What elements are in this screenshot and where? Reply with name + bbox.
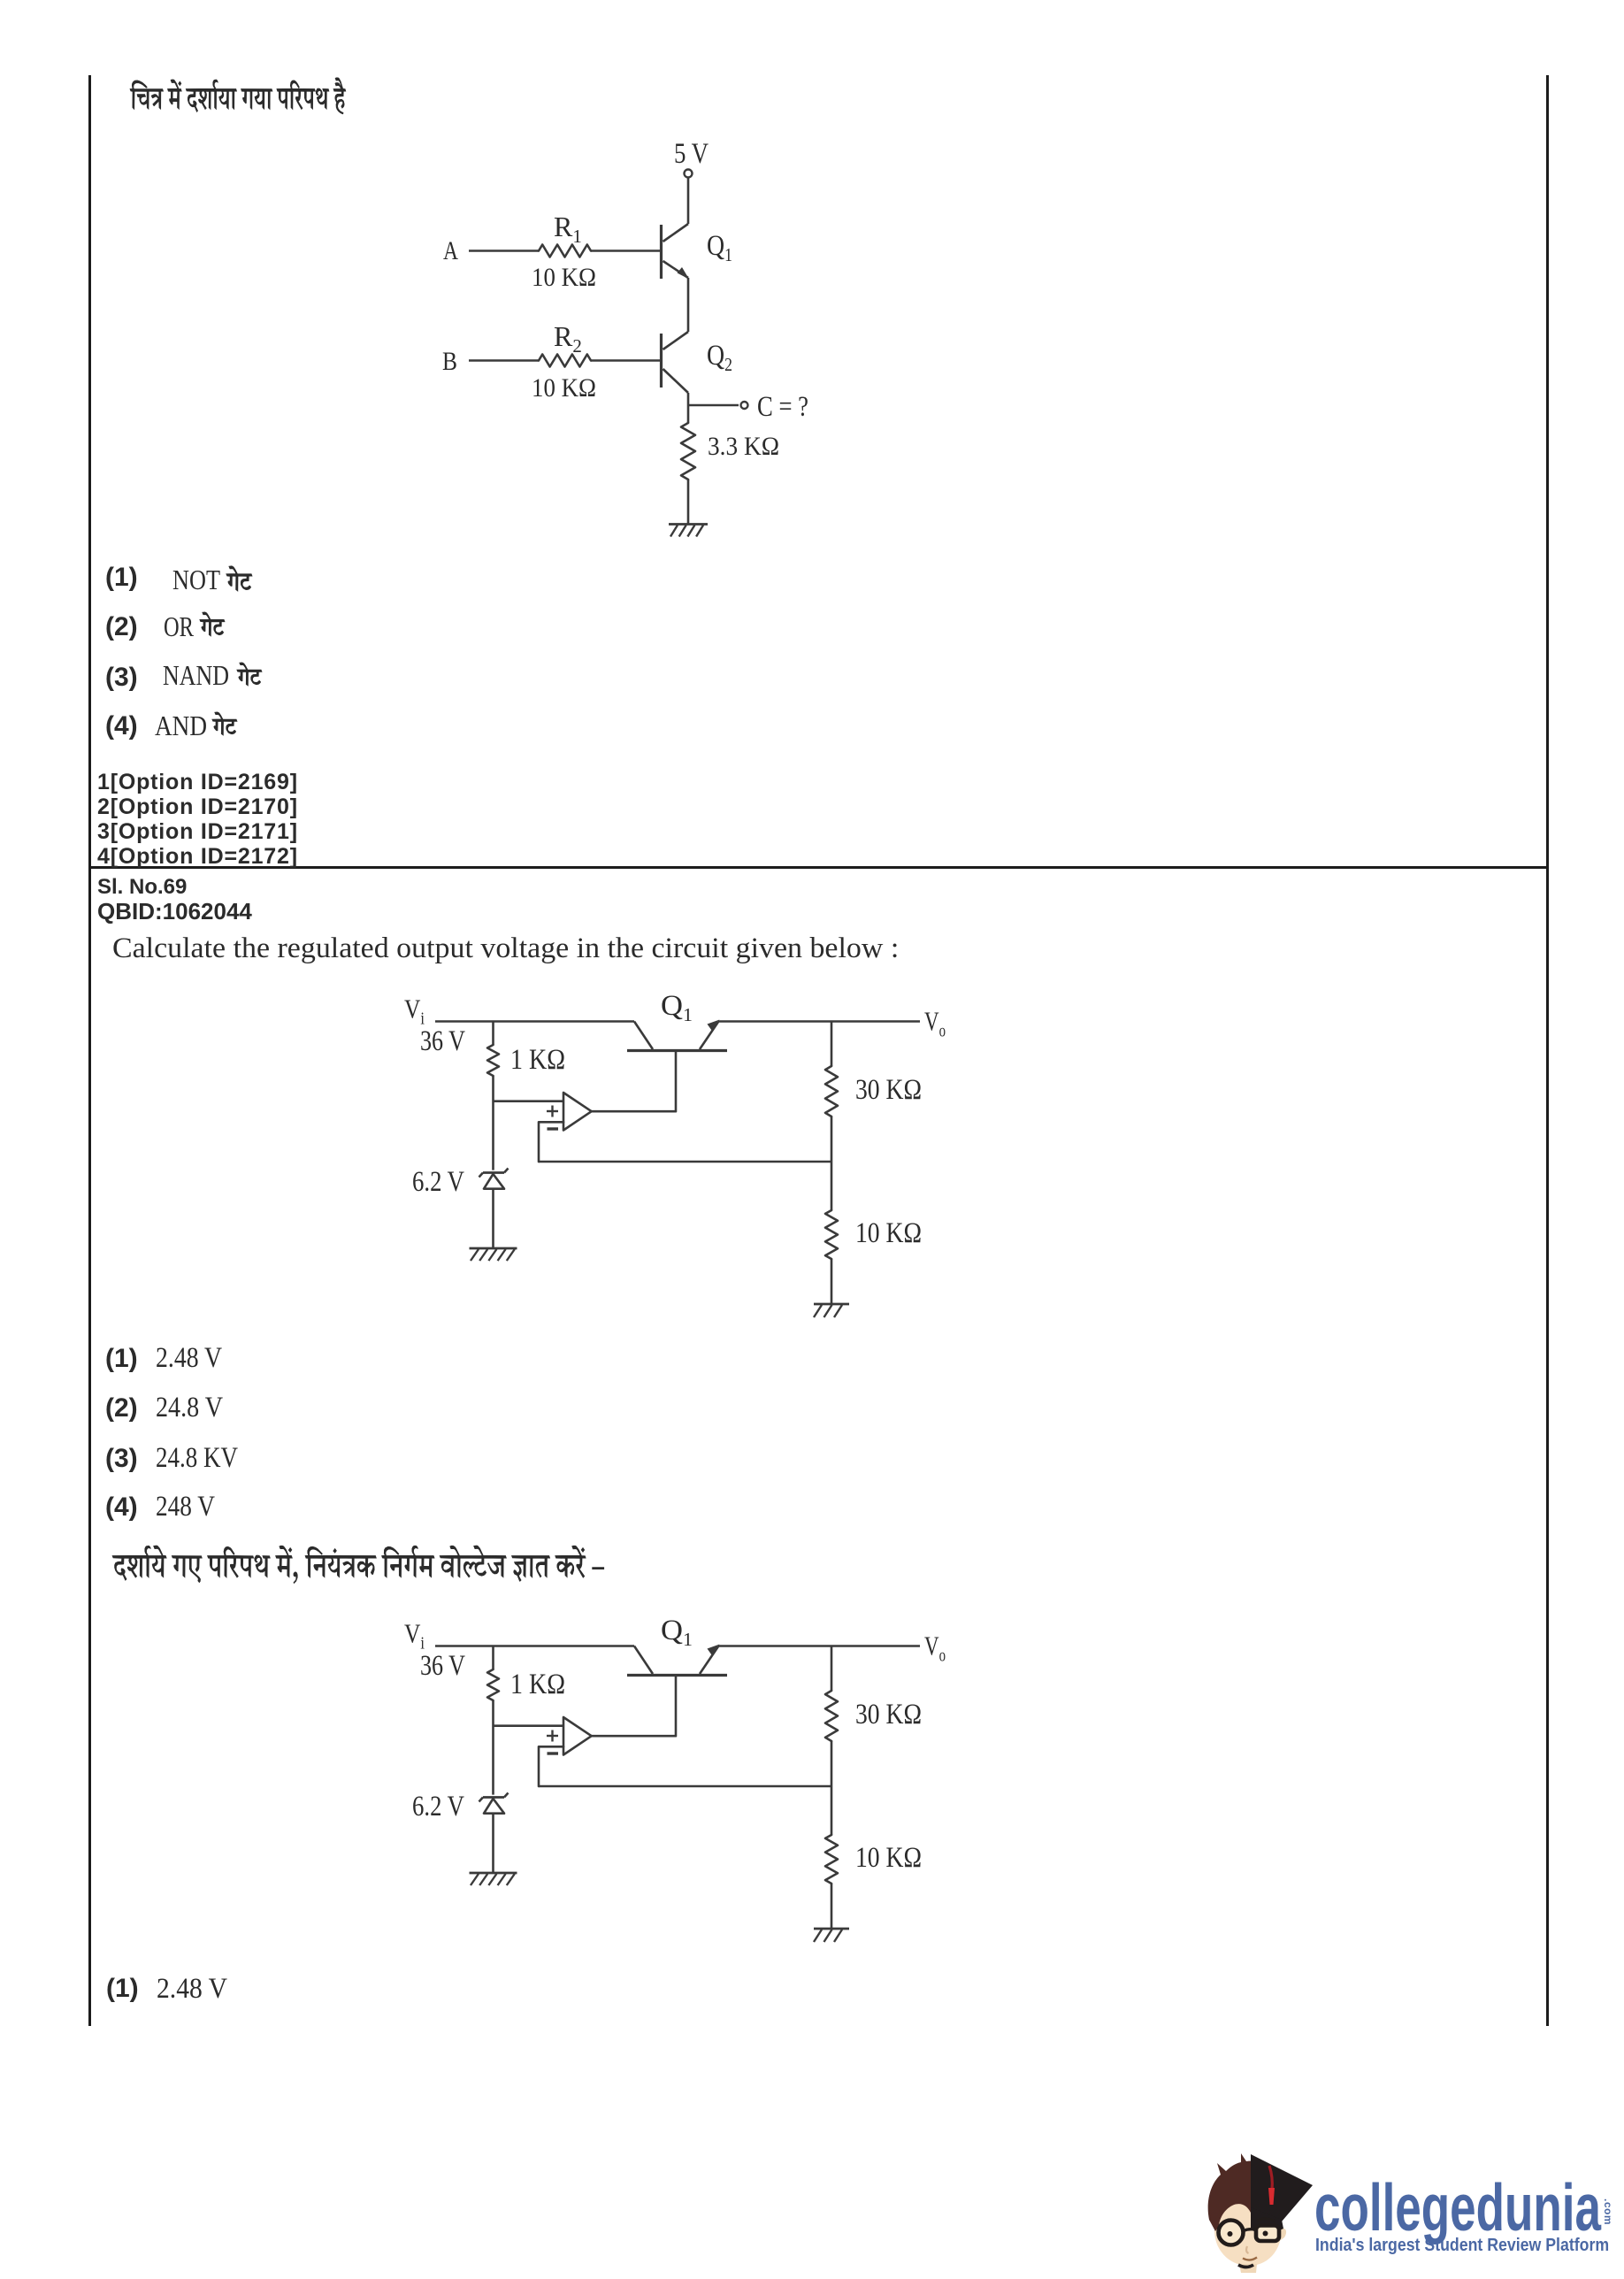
svg-text:3.3 KΩ: 3.3 KΩ [708,432,779,461]
svg-text:10 KΩ: 10 KΩ [532,263,596,292]
left eye pupil [1228,2231,1233,2237]
svg-text:Q2: Q2 [707,340,732,375]
transistor Q1 (c2) [627,1049,727,1052]
op-amp + input marking (c3) [547,1735,558,1737]
hindi heading text [130,78,346,114]
mouth [1243,2258,1257,2260]
svg-text:R1: R1 [554,211,582,247]
wire opamp output to Q1 base (c2) [592,1052,676,1111]
glasses bridge [1244,2229,1257,2231]
svg-text:Vo: Vo [924,1631,946,1666]
op-amp + input marking (c2) [547,1110,558,1112]
Sl. No. header [97,877,187,898]
svg-text:Vo: Vo [924,1006,946,1041]
glasses right lens [1256,2226,1279,2242]
wire Q1 emitter to Q2 collector [687,278,690,332]
svg-text:1 KΩ: 1 KΩ [510,1669,565,1700]
svg-text:B: B [442,347,457,376]
wire opamp output to Q1 base (c3) [592,1677,676,1736]
wire 30K to 10K (c2) [831,1116,833,1210]
ground right (c2) [814,1303,849,1306]
wire R2 to Q2 base [591,359,660,362]
cap tassel cord [1269,2166,1272,2190]
glasses left lens [1219,2221,1244,2245]
circuit 2: series regulator schematic [398,989,955,1325]
5V terminal circle [685,170,693,178]
cap tassel knob [1268,2188,1275,2205]
svg-text:30 KΩ: 30 KΩ [855,1699,922,1730]
avatar right ear [1281,2229,1286,2240]
svg-text:R2: R2 [554,320,582,357]
graduation cap crown [1251,2207,1283,2233]
ground (circuit 1) [669,523,708,526]
option (1) 2.48 V (bottom) [106,1976,139,2002]
option (1) 2.48 V [105,1346,138,1372]
wire 10K to ground (c2) [831,1259,833,1303]
QBID header [97,900,252,923]
svg-text:C = ?: C = ? [757,391,808,423]
option (2) 24.8 V [105,1395,138,1422]
wire opamp - input step (c2) [539,1122,563,1162]
wire Vi to Q1 collector (c3) [435,1645,634,1647]
svg-text:10 KΩ: 10 KΩ [532,373,596,403]
svg-text:Q1: Q1 [661,1615,693,1650]
op-amp - input marking (c2) [548,1127,559,1130]
collegedunia logo avatar [1206,2149,1313,2279]
wire zener to ground (c3) [492,1814,494,1872]
wire 30K to 10K (c3) [831,1741,833,1835]
circuit 3: series regulator schematic (repeat) [398,1614,955,1950]
wire 3.3K to ground [687,480,690,524]
svg-text:5 V: 5 V [674,138,709,170]
wire node C to output terminal [688,404,739,407]
avatar face [1214,2192,1282,2266]
wire Q1 emitter to Vo (c2) [718,1020,920,1023]
wire Vo junction to 30K (c3) [831,1646,833,1692]
ground left (c2) [470,1247,517,1250]
wire node to opamp + input (c3) [494,1724,564,1727]
section divider line [88,866,1549,869]
collegedunia wordmark [1314,2175,1601,2241]
graduation cap board [1251,2154,1313,2221]
svg-text:10 KΩ: 10 KΩ [855,1842,922,1874]
resistor 1K zigzag (c2) [487,1045,499,1076]
wire zener to ground (c2) [492,1189,494,1247]
hindi question text [112,1546,604,1584]
op-amp - input marking (c3) [548,1752,559,1754]
wire Q2 emitter to node C [687,393,690,423]
right eye pupil [1263,2231,1268,2237]
question block right border [1546,75,1549,2026]
svg-text:30 KΩ: 30 KΩ [855,1074,922,1106]
svg-text:6.2 V: 6.2 V [412,1166,464,1198]
resistor 30K zigzag (c2) [825,1066,838,1116]
chin collar mark [1238,2265,1253,2267]
svg-text:10 KΩ: 10 KΩ [855,1217,922,1249]
feedback wire bottom (c2) [539,1161,831,1163]
resistor 10K zigzag (c3) [825,1835,838,1884]
zener diode 6.2V (c3) [483,1796,504,1799]
op-amp U1 triangle (c3) [563,1717,592,1755]
wire opamp - input step (c3) [539,1746,563,1786]
feedback wire bottom (c3) [539,1785,831,1788]
option (3) NAND gate [105,664,138,691]
question text [112,934,899,963]
avatar hair [1208,2153,1269,2231]
.com vertical [1603,2198,1613,2225]
resistor 1K zigzag (c3) [487,1669,499,1700]
svg-text:1 KΩ: 1 KΩ [510,1044,565,1076]
transistor Q1 (c3) [627,1674,727,1677]
svg-text:6.2 V: 6.2 V [412,1791,464,1822]
wire 1K to zener node (c3) [492,1700,494,1795]
svg-text:Vi: Vi [404,994,425,1029]
svg-text:A: A [443,236,458,265]
wire top junction to 1K (c2) [492,1022,494,1046]
wire Q1 emitter to Vo (c3) [718,1645,920,1647]
option (2) OR gate [105,614,138,641]
option ID list [97,771,298,794]
logo tagline [1315,2237,1609,2254]
wire 5V to Q1 collector [687,178,690,225]
resistor R2 10K zigzag [539,355,591,367]
question block left border [88,75,91,2026]
wire top junction to 1K (c3) [492,1646,494,1670]
svg-text:Q1: Q1 [661,990,693,1025]
zener diode 6.2V (c2) [483,1171,504,1174]
option (4) AND gate [105,713,138,740]
wire Vi to Q1 collector (c2) [435,1020,634,1023]
resistor 30K zigzag (c3) [825,1691,838,1741]
resistor 3.3K zigzag [681,423,695,480]
wire R1 to Q1 base [591,249,660,252]
wire Vo junction to 30K (c2) [831,1022,833,1067]
resistor 10K zigzag (c2) [825,1210,838,1259]
wire 10K to ground (c3) [831,1884,833,1928]
wire node to opamp + input (c2) [494,1100,564,1102]
op-amp U1 triangle (c2) [563,1093,592,1131]
option (4) 248 V [105,1494,138,1521]
option (1) NOT gate [105,564,138,591]
svg-text:Q1: Q1 [707,230,732,265]
circuit 1: two-transistor gate schematic [438,137,814,540]
option (3) 24.8 KV [105,1446,138,1472]
wire B to R2 [469,359,539,362]
resistor R1 10K zigzag [539,245,591,257]
transistor Q2 [663,332,689,349]
wire 1K to zener node (c2) [492,1076,494,1170]
svg-text:Vi: Vi [404,1618,425,1654]
right eyebrow [1257,2219,1275,2221]
transistor Q1 [663,224,689,242]
nose [1246,2246,1248,2253]
ground left (c3) [470,1872,517,1875]
svg-text:36 V: 36 V [420,1025,465,1057]
output terminal circle C [741,402,748,409]
wire A to R1 [469,249,539,252]
svg-text:36 V: 36 V [420,1650,465,1682]
ground right (c3) [814,1928,849,1930]
avatar neck [1239,2264,1257,2273]
